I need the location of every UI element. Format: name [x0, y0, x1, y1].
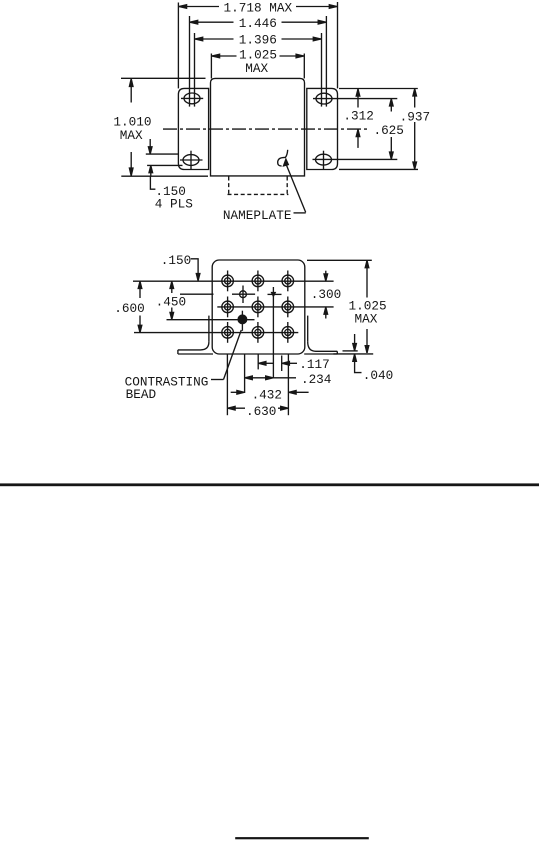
dimension .937 — [339, 89, 430, 170]
svg-text:.450: .450 — [156, 294, 186, 309]
svg-text:.117: .117 — [299, 357, 329, 372]
contrasting bead leader and label — [125, 330, 242, 402]
dimension 1.010 MAX — [113, 78, 208, 176]
dimension .234 — [245, 372, 332, 387]
contrasting bead — [167, 311, 255, 331]
mounting hole upper-right — [313, 93, 397, 104]
dimension .312 — [339, 89, 418, 148]
svg-text:.312: .312 — [343, 109, 373, 124]
mounting hole lower-left — [180, 151, 203, 170]
horizontal centerline (top view) — [163, 128, 368, 130]
pin A1 — [222, 271, 234, 292]
dimension .600 — [114, 281, 144, 332]
dimension .040 — [333, 334, 393, 383]
dimension .630 — [227, 404, 288, 419]
section divider rule — [0, 483, 539, 486]
case outline (top view) — [211, 78, 305, 175]
left mounting leg (section) — [178, 316, 213, 354]
left mounting flange — [178, 88, 208, 169]
svg-text:.625: .625 — [373, 123, 403, 138]
svg-text:MAX: MAX — [354, 312, 377, 327]
svg-text:1.396: 1.396 — [239, 33, 277, 48]
case outline (bottom view) — [212, 260, 305, 354]
pin A2 — [252, 271, 264, 292]
row 1 centerline — [133, 280, 334, 282]
dimension 1.396 — [195, 33, 322, 107]
nameplate leader and label — [223, 150, 306, 223]
nameplate dashed outline — [228, 177, 289, 195]
pin column extension lines — [226, 354, 228, 415]
svg-text:.432: .432 — [252, 387, 282, 402]
dimension .150 (bottom view) — [161, 253, 200, 281]
bottom footer line — [235, 837, 369, 839]
dimension 1.025 MAX (bottom view) — [307, 260, 387, 353]
mounting hole upper-left — [181, 93, 203, 104]
pin C1 — [222, 322, 234, 343]
svg-text:.150: .150 — [161, 253, 191, 268]
dimension .450 — [156, 281, 186, 319]
dimension .150 4 PLS (hole size) — [146, 139, 193, 211]
svg-text:MAX: MAX — [245, 61, 268, 76]
dimension .432 — [231, 387, 309, 402]
row 2 centerline — [217, 306, 333, 308]
right mounting flange — [307, 88, 338, 169]
dimension .300 — [311, 271, 341, 319]
svg-text:4 PLS: 4 PLS — [155, 196, 193, 211]
mounting hole lower-right — [313, 151, 398, 170]
pin C2 — [252, 322, 264, 343]
right mounting leg (section) — [304, 316, 337, 354]
dimension .117 — [258, 357, 330, 372]
center datum mark — [268, 287, 282, 378]
svg-text:.600: .600 — [114, 301, 144, 316]
pin A3 — [282, 271, 294, 292]
svg-text:.234: .234 — [301, 372, 331, 387]
pin B3 — [282, 297, 294, 318]
svg-text:1.718 MAX: 1.718 MAX — [224, 1, 293, 16]
svg-text:NAMEPLATE: NAMEPLATE — [223, 208, 292, 223]
svg-text:.937: .937 — [400, 110, 430, 125]
index pin — [180, 286, 255, 304]
svg-text:.040: .040 — [363, 368, 393, 383]
pin C3 — [282, 322, 294, 343]
row 3 centerline — [134, 332, 298, 334]
svg-text:.630: .630 — [246, 404, 276, 419]
dimension 1.025 MAX (top view) — [211, 47, 304, 78]
svg-text:1.446: 1.446 — [239, 16, 277, 31]
svg-text:BEAD: BEAD — [126, 387, 156, 402]
dimension 1.718 MAX — [178, 1, 337, 89]
pin B1 — [222, 297, 234, 318]
dimension 1.446 — [190, 16, 327, 107]
dimension .625 — [373, 99, 403, 159]
pin B2 — [252, 297, 264, 318]
svg-text:.300: .300 — [311, 287, 341, 302]
svg-text:MAX: MAX — [120, 128, 143, 143]
